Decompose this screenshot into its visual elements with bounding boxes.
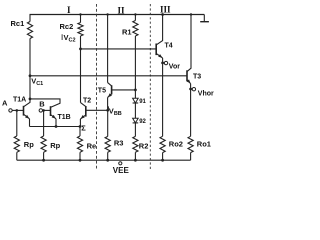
resistor Rp1: [14, 136, 19, 152]
svg-text:VEE: VEE: [113, 166, 130, 175]
label Ro2: [169, 139, 183, 148]
svg-text:T1B: T1B: [58, 114, 71, 121]
label T2: [83, 97, 91, 104]
node Vc2 junction: [79, 48, 82, 51]
label R2: [139, 142, 149, 151]
wire Vor stub: [163, 62, 165, 64]
wire Ro2 bottom: [162, 153, 164, 161]
transistor T5 collector: [108, 83, 112, 86]
label Vc1: [31, 76, 43, 87]
section label III: [160, 5, 171, 15]
wire collector tie T1A-T1B: [30, 99, 60, 108]
output terminal Vhor: [192, 88, 195, 91]
wire Rp2 bottom: [43, 152, 45, 160]
label Rc2: [60, 22, 74, 31]
wire Rc1 to Vc1 node: [29, 39, 31, 76]
label Vhor: [198, 90, 214, 97]
label T1B: [58, 114, 71, 121]
label D1: [139, 99, 146, 105]
node Rc2 rail junction: [79, 13, 81, 15]
svg-text:Ro1: Ro1: [197, 139, 211, 148]
resistor Rp2: [41, 136, 46, 152]
terminal VEE: [119, 162, 122, 165]
node collector tie junction: [29, 98, 32, 101]
input terminal B: [39, 109, 42, 112]
wire Re bottom: [79, 152, 81, 160]
section label I: [67, 5, 71, 15]
wire Rc2 top: [80, 15, 82, 23]
svg-text:II: II: [118, 6, 126, 16]
wire Rc2 to T2 collector: [80, 49, 82, 103]
svg-text:Σ: Σ: [81, 123, 86, 132]
node R1 rail junction: [134, 13, 136, 15]
svg-text:Re: Re: [87, 141, 97, 150]
svg-text:Rp: Rp: [50, 141, 60, 150]
svg-text:T5: T5: [98, 87, 106, 94]
node Rp2 junction: [42, 109, 45, 112]
wire Rc2 to Vc2 node: [80, 36, 82, 49]
transistor T3 collector: [187, 15, 191, 72]
label Vor: [169, 63, 180, 70]
node R1-diode junction: [134, 89, 137, 92]
section label II: [118, 6, 126, 16]
node Rp2 rail junction: [42, 159, 45, 162]
svg-text:91: 91: [139, 99, 146, 105]
power terminal top right: [200, 15, 209, 22]
wire Vc2 line to T4 base: [81, 48, 157, 50]
wire D1 to D2: [134, 103, 136, 118]
svg-text:R2: R2: [139, 142, 149, 151]
transistor T5 base bar: [111, 85, 113, 94]
node R3 rail junction: [106, 159, 109, 162]
wire Rp1 top: [16, 110, 18, 136]
label T5: [98, 87, 106, 94]
node Rp1 junction: [15, 109, 18, 112]
svg-text:Ro2: Ro2: [169, 139, 183, 148]
wire R1 to base node: [134, 36, 136, 98]
svg-text:Vor: Vor: [169, 63, 180, 70]
svg-text:T1A: T1A: [13, 97, 26, 104]
wire R3 top: [107, 110, 109, 136]
svg-text:92: 92: [139, 119, 146, 125]
wire R3 bottom: [107, 152, 109, 160]
wire T5 base to R1-diode node: [112, 89, 136, 91]
wire Rp1 bottom: [16, 152, 18, 160]
svg-text:T4: T4: [165, 43, 173, 50]
transistor T4 base bar: [155, 44, 157, 56]
transistor T1B emitter: [51, 115, 57, 127]
label Ro1: [197, 139, 211, 148]
transistor T1A emitter: [24, 114, 30, 126]
label D2: [139, 119, 146, 125]
wire Re top: [79, 127, 81, 137]
label VBB arrow: [108, 106, 110, 109]
label Re: [87, 141, 97, 150]
label R1: [122, 28, 132, 37]
svg-text:R1: R1: [122, 28, 132, 37]
wire D2 to R2: [134, 123, 136, 136]
svg-text:B: B: [39, 100, 45, 109]
label VEE: [113, 166, 130, 175]
node sigma junction: [79, 125, 82, 128]
wire R1 top: [134, 15, 136, 21]
wire T5 collector to rail: [107, 15, 109, 83]
node R2 rail junction: [134, 159, 137, 162]
node T4 rail junction: [161, 13, 164, 16]
node T3 rail junction: [190, 13, 192, 15]
wire Rc1 top: [29, 15, 31, 22]
wire T2 base to VBB node: [86, 109, 108, 111]
label Vc2: [64, 33, 76, 44]
resistor R1: [133, 21, 138, 37]
resistor R3: [105, 136, 110, 152]
svg-text:A: A: [2, 99, 8, 108]
transistor T3 base bar: [186, 70, 188, 81]
resistor R2: [133, 136, 138, 152]
transistor T5 emitter: [108, 93, 112, 110]
label Rp1: [24, 140, 34, 149]
svg-text:Vhor: Vhor: [198, 90, 214, 97]
label Rc1: [11, 19, 25, 28]
wire R2 bottom: [134, 152, 136, 160]
transistor T3 emitter: [187, 79, 191, 136]
node VBB junction: [106, 109, 109, 112]
resistor Rc1: [27, 22, 32, 39]
svg-text:Rc1: Rc1: [11, 19, 25, 28]
wire Rp2 top: [43, 110, 45, 136]
wire top supply rail: [30, 14, 205, 16]
dashed section divider 2: [149, 4, 151, 169]
wire Vc1 line to T3 base: [30, 75, 187, 77]
node Vor junction: [161, 62, 164, 65]
output terminal Vor: [164, 61, 167, 64]
wire Vhor stub: [191, 88, 193, 90]
wire bottom rail VEE: [17, 159, 191, 161]
label Vc2 arrow: [61, 34, 63, 40]
wire input B to T1B base: [43, 109, 51, 111]
diode D1: [133, 98, 139, 103]
input terminal A: [9, 109, 12, 112]
label VBB: [109, 107, 122, 118]
transistor T4 collector: [156, 15, 162, 45]
wire emitter rail sigma: [30, 126, 81, 128]
wire Ro1 bottom: [190, 153, 192, 161]
label A: [2, 99, 8, 108]
resistor Rc2: [78, 23, 83, 37]
transistor T1B base bar: [50, 106, 52, 116]
transistor T1A base bar: [23, 106, 25, 116]
resistor Re: [77, 136, 82, 152]
label T3: [193, 73, 201, 80]
diode D2: [133, 118, 139, 123]
svg-text:R3: R3: [114, 138, 124, 147]
transistor T2 emitter: [80, 115, 85, 127]
dashed section divider 1: [96, 4, 98, 169]
node Vhor junction: [189, 88, 192, 91]
node T5 rail junction: [106, 13, 108, 15]
label sigma node: [81, 123, 86, 132]
label T1A: [13, 97, 26, 104]
node Ro2 rail junction: [161, 159, 164, 162]
node Re rail junction: [79, 159, 82, 162]
svg-text:T2: T2: [83, 97, 91, 104]
resistor Ro1: [188, 136, 193, 152]
svg-text:T3: T3: [193, 73, 201, 80]
wire input A to T1A base: [12, 109, 23, 111]
svg-text:III: III: [160, 5, 171, 15]
transistor T2 base bar: [85, 106, 87, 117]
label B: [39, 100, 45, 109]
label Rp2: [50, 141, 60, 150]
transistor T1A collector: [24, 76, 31, 107]
svg-text:Rp: Rp: [24, 140, 34, 149]
transistor T4 emitter: [156, 53, 162, 136]
transistor T2 collector: [81, 103, 86, 107]
node Vc1 junction: [29, 74, 32, 77]
svg-text:I: I: [67, 5, 71, 15]
node T1B emitter junction: [55, 125, 58, 128]
label T4: [165, 43, 173, 50]
label R3: [114, 138, 124, 147]
svg-text:Rc2: Rc2: [60, 22, 74, 31]
resistor Ro2: [160, 136, 165, 152]
